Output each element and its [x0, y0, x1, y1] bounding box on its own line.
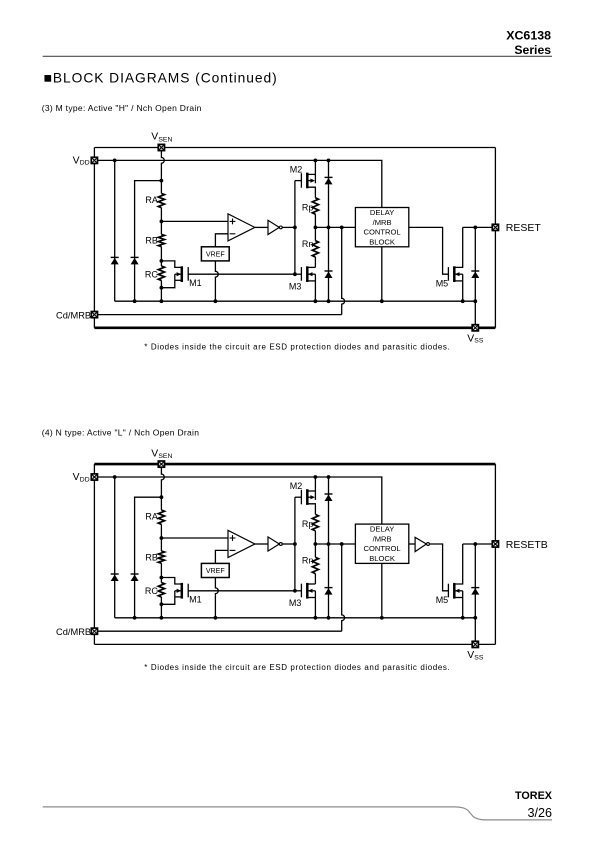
svg-text:CONTROL: CONTROL — [364, 228, 401, 237]
wire RB-RC segment — [160, 247, 162, 261]
block DELAY/MRB CONTROL BLOCK — [355, 208, 408, 247]
wire M3 gate lead — [295, 590, 302, 592]
junction gate line - gate column — [293, 272, 297, 276]
svg-text:RB: RB — [145, 236, 158, 246]
wire output line to terminal — [463, 226, 496, 228]
wire VSEN branch to diode column 2 — [135, 497, 162, 618]
wire gate line M1-M3 — [188, 273, 295, 275]
transistor M3 drain arm — [307, 583, 315, 585]
terminal VSS — [472, 325, 478, 331]
transistor M2 source arm — [307, 173, 315, 175]
footer rule — [43, 807, 552, 820]
junction VREF column - VSS rail — [214, 299, 218, 303]
svg-text:M3: M3 — [289, 282, 302, 292]
junction mid line - Cd/MRB column — [340, 226, 344, 230]
junction RC top — [160, 259, 164, 263]
transistor M3 bulk arm arrow — [308, 273, 315, 275]
junction gate column - inverter output — [293, 542, 297, 546]
junction VDD-M2 source column — [314, 159, 318, 163]
svg-text:RA: RA — [145, 512, 158, 522]
transistor M3 channel bar — [306, 583, 309, 599]
wire Rn to M3 drain — [314, 257, 316, 267]
wire VSEN branch to diode column 2 — [135, 181, 162, 302]
op-amp comparator U1 — [228, 530, 255, 557]
wire VSEN column (hops VDD rail) — [161, 464, 164, 510]
transistor M2 gate lead — [295, 496, 302, 498]
transistor M2 drain arm — [307, 187, 315, 198]
diode ESD D2 — [131, 574, 139, 581]
transistor M1 source path — [161, 274, 174, 288]
op-amp comparator U1 — [228, 214, 255, 241]
transistor M3 bulk arm arrow — [308, 590, 315, 592]
wire diode column 4 — [474, 544, 476, 618]
junction diode column 3 - VSS rail — [327, 616, 331, 620]
svg-text:XC6138: XC6138 — [506, 29, 551, 43]
svg-text:RC: RC — [145, 270, 158, 280]
comparator - symbol — [230, 549, 236, 551]
junction gate column - inverter output — [293, 226, 297, 230]
wire comparator output — [255, 226, 268, 228]
diode ESD D5 — [471, 588, 479, 595]
svg-text:SS: SS — [474, 338, 484, 345]
junction mid line - diode column 3 — [327, 226, 331, 230]
svg-text:3/26: 3/26 — [527, 806, 552, 820]
junction diode column 3 - VSS rail — [327, 299, 331, 303]
svg-text:Rp: Rp — [302, 519, 314, 529]
wire outer box right edge — [494, 148, 496, 328]
svg-text:V: V — [73, 156, 80, 167]
transistor M5 gate bar — [447, 584, 449, 598]
wire Rp to mid node — [314, 214, 316, 227]
transistor M3 drain arm — [307, 266, 315, 268]
svg-text:M5: M5 — [436, 595, 449, 605]
junction RC bottom — [160, 602, 164, 606]
wire outer box left edge — [93, 148, 95, 328]
block DELAY/MRB CONTROL BLOCK — [355, 524, 408, 563]
transistor M1 source path — [161, 591, 174, 605]
junction M5 source - VSS rail — [461, 616, 465, 620]
wire M2/M3 gate column — [294, 497, 296, 591]
junction output line - diode column 4 — [473, 542, 477, 546]
block VREF box — [201, 563, 229, 577]
transistor M1 bulk arm — [175, 273, 181, 275]
wire M3 gate lead — [295, 273, 302, 275]
wire comparator + input — [161, 220, 228, 222]
transistor M5 source arm — [454, 597, 462, 599]
junction delay block - VSS rail — [380, 299, 384, 303]
diode ESD D4 — [325, 271, 333, 278]
svg-text:VREF: VREF — [206, 567, 226, 575]
block VREF box — [201, 247, 229, 261]
transistor M5 bulk arm arrow — [455, 590, 462, 592]
wire outer box left edge — [93, 464, 95, 644]
wire outer box bottom edge — [94, 326, 495, 329]
wire ESD diode column 3 — [328, 477, 330, 618]
junction Rp/Rn mid node — [314, 542, 318, 546]
transistor M1 drain path — [161, 578, 181, 585]
svg-text:BLOCK: BLOCK — [369, 237, 395, 246]
junction RC top — [160, 576, 164, 580]
inverter U2 — [268, 537, 279, 551]
resistor Rp — [312, 198, 318, 214]
junction VDD-ESD diode column 1 — [113, 159, 117, 163]
transistor M5 bulk arm arrow — [455, 273, 462, 275]
junction VREF column - VSS rail — [214, 616, 218, 620]
transistor M2 channel bar — [306, 489, 309, 505]
transistor M2 gate lead — [295, 180, 302, 182]
transistor M2 gate bar — [300, 173, 302, 188]
wire VDD rail — [94, 477, 381, 524]
svg-text:V: V — [467, 333, 474, 344]
svg-text:TOREX: TOREX — [515, 790, 553, 802]
wire comparator output — [255, 543, 268, 545]
resistor RB — [158, 551, 164, 563]
wire comparator + input — [161, 537, 228, 539]
wire RB-RC segment — [160, 563, 162, 577]
svg-text:M2: M2 — [290, 164, 303, 174]
wire inverter output to gate column — [282, 226, 295, 228]
comparator + symbol — [230, 537, 236, 539]
transistor M1 drain path — [161, 261, 181, 268]
wire mid node to delay block — [315, 543, 355, 545]
svg-text:Cd/MRB: Cd/MRB — [56, 310, 91, 320]
wire RC bottom to VSS rail — [160, 604, 162, 618]
junction VSEN-branch node — [160, 495, 164, 499]
wire delay block output to M5 gate — [409, 227, 449, 274]
svg-text:VREF: VREF — [206, 251, 226, 259]
transistor M1 channel bar — [181, 266, 184, 282]
wire VSS rail — [115, 300, 476, 302]
wire delay block bottom to VSS rail — [381, 247, 383, 301]
svg-text:M2: M2 — [290, 481, 303, 491]
svg-text:RB: RB — [145, 552, 158, 562]
header rule — [43, 55, 552, 57]
resistor RC — [160, 578, 162, 583]
svg-text:RA: RA — [145, 195, 158, 205]
wire VDD rail — [94, 160, 381, 207]
comparator - symbol — [230, 233, 236, 235]
transistor M2 drain arm — [307, 504, 315, 515]
junction gate line - gate column — [293, 589, 297, 593]
junction diode column 2 - VSS rail — [133, 299, 137, 303]
wire delay block bottom to VSS rail — [381, 563, 383, 617]
svg-text:/MRB: /MRB — [373, 534, 392, 543]
junction VDD-M2 source column — [314, 475, 318, 479]
junction diode column 4 - VSS rail — [473, 616, 477, 620]
inverter U3 — [415, 537, 426, 551]
transistor M3 source arm — [307, 597, 315, 599]
terminal RESETB — [492, 541, 498, 547]
comparator + symbol — [230, 220, 236, 222]
svg-text:M1: M1 — [189, 594, 202, 604]
svg-text:Series: Series — [514, 43, 551, 57]
resistor RC — [160, 261, 162, 266]
transistor M2 channel bar — [306, 173, 309, 189]
svg-text:Rn: Rn — [302, 556, 314, 566]
junction comparator + tap — [160, 536, 164, 540]
svg-text:RESETB: RESETB — [506, 539, 548, 551]
transistor M5 channel bar — [453, 266, 456, 282]
svg-text:* Diodes inside the circuit ar: * Diodes inside the circuit are ESD prot… — [144, 663, 450, 672]
wire Cd/MRB line — [94, 630, 341, 632]
junction RC bottom — [160, 286, 164, 290]
terminal RESET — [492, 224, 498, 230]
terminal VSS — [472, 641, 478, 647]
diode ESD D2 — [131, 257, 139, 264]
svg-text:SEN: SEN — [158, 137, 172, 144]
junction VSEN-branch node — [160, 179, 164, 183]
svg-text:■BLOCK DIAGRAMS (Continued): ■BLOCK DIAGRAMS (Continued) — [44, 71, 278, 86]
diode ESD D3 — [325, 177, 333, 184]
wire gate line M1-M3 — [188, 590, 295, 592]
junction delay block - VSS rail — [380, 616, 384, 620]
terminal Cd/MRB — [91, 312, 97, 318]
wire inverter output to gate column — [282, 543, 295, 545]
wire ESD diode column 1 — [114, 160, 116, 301]
wire outer box top edge — [94, 463, 495, 466]
resistor Rn — [312, 241, 318, 257]
wire mid node to delay block — [315, 226, 355, 228]
svg-text:M5: M5 — [436, 279, 449, 289]
transistor M2 bulk arm arrow — [307, 180, 311, 182]
svg-text:* Diodes inside the circuit ar: * Diodes inside the circuit are ESD prot… — [144, 343, 450, 352]
wire RA-RB segment — [160, 208, 162, 235]
svg-text:RC: RC — [145, 586, 158, 596]
transistor M5 source arm — [454, 280, 462, 282]
svg-text:V: V — [467, 650, 474, 661]
wire inverter U3 output to M5 gate — [429, 544, 448, 591]
junction diode column 2 - VSS rail — [133, 616, 137, 620]
svg-text:M3: M3 — [289, 598, 302, 608]
diode ESD D5 — [471, 271, 479, 278]
diode ESD D1 — [111, 257, 119, 264]
wire VSS rail — [115, 617, 476, 619]
wire VSEN column (hops VDD rail) — [161, 148, 164, 194]
transistor M3 channel bar — [306, 266, 309, 282]
svg-text:CONTROL: CONTROL — [364, 544, 401, 553]
wire RC bottom to VSS rail — [160, 288, 162, 302]
wire M2/M3 gate column — [294, 181, 296, 275]
svg-text:SEN: SEN — [158, 453, 172, 460]
resistor RA — [158, 510, 164, 524]
junction VDD-ESD diode column 1 — [113, 475, 117, 479]
wire comparator - input from VREF — [215, 234, 228, 247]
junction output line - diode column 4 — [473, 226, 477, 230]
resistor RA — [158, 193, 164, 207]
transistor M1 gate bar — [187, 584, 189, 598]
svg-text:V: V — [151, 132, 158, 143]
transistor M2 source arm — [307, 490, 315, 492]
diode ESD D4 — [325, 588, 333, 595]
junction M5 source - VSS rail — [461, 299, 465, 303]
resistor Rn — [312, 557, 318, 573]
svg-text:Rp: Rp — [302, 202, 314, 212]
wire Rp to mid node — [314, 531, 316, 544]
junction mid line - diode column 3 — [327, 542, 331, 546]
terminal VSEN — [158, 144, 164, 150]
wire mid node to Rn — [314, 227, 316, 240]
svg-text:(4) N type: Active "L" / Nch O: (4) N type: Active "L" / Nch Open Drain — [42, 427, 200, 437]
junction resistor chain - VSS rail — [160, 299, 164, 303]
junction mid line - Cd/MRB column — [340, 542, 344, 546]
wire outer box top edge — [94, 147, 495, 149]
svg-text:RESET: RESET — [506, 222, 542, 234]
wire VREF to VSS rail (hops gate line) — [215, 578, 218, 618]
junction Rp/Rn mid node — [314, 226, 318, 230]
wire VREF to VSS rail (hops gate line) — [215, 261, 218, 301]
svg-text:DELAY: DELAY — [370, 525, 394, 534]
wire Cd/MRB column (hops VSS rail) — [342, 227, 345, 314]
transistor M5 drain arm — [454, 544, 462, 584]
wire outer box bottom edge — [94, 643, 495, 645]
terminal VDD — [91, 157, 97, 163]
wire diode column 4 — [474, 227, 476, 301]
wire mid node to Rn — [314, 544, 316, 557]
resistor Rp — [312, 514, 318, 530]
svg-text:Cd/MRB: Cd/MRB — [56, 627, 91, 637]
terminal Cd/MRB — [91, 628, 97, 634]
transistor M1 bulk arm — [175, 590, 181, 592]
svg-text:SS: SS — [474, 654, 484, 661]
junction VDD-ESD diode column 3 — [327, 475, 331, 479]
svg-text:M1: M1 — [189, 278, 202, 288]
junction M3 source - VSS rail — [314, 299, 318, 303]
svg-text:Rn: Rn — [302, 239, 314, 249]
wire Cd/MRB column (hops VSS rail) — [342, 544, 345, 631]
wire ESD diode column 1 — [114, 477, 116, 618]
wire output line to terminal — [463, 543, 496, 545]
svg-text:V: V — [151, 448, 158, 459]
wire comparator - input from VREF — [215, 550, 228, 563]
wire ESD diode column 3 — [328, 160, 330, 301]
wire Cd/MRB line — [94, 314, 341, 316]
transistor M3 gate bar — [300, 267, 302, 281]
resistor RB — [158, 234, 164, 246]
diode ESD D1 — [111, 574, 119, 581]
transistor M1 channel bar — [181, 583, 184, 599]
junction diode column 4 - VSS rail — [473, 299, 477, 303]
junction comparator + tap — [160, 220, 164, 224]
transistor M3 source arm — [307, 280, 315, 282]
transistor M5 gate bar — [447, 267, 449, 281]
junction resistor chain - VSS rail — [160, 616, 164, 620]
svg-text:BLOCK: BLOCK — [369, 554, 395, 563]
wire delay block output — [409, 543, 415, 545]
wire VSS rail to VSS terminal — [474, 618, 476, 645]
svg-text:/MRB: /MRB — [373, 218, 392, 227]
junction M3 source - VSS rail — [314, 616, 318, 620]
transistor M1 gate bar — [187, 267, 189, 281]
inverter U2 — [268, 220, 279, 234]
diode ESD D3 — [325, 494, 333, 501]
wire Rn to M3 drain — [314, 574, 316, 584]
svg-text:DELAY: DELAY — [370, 208, 394, 217]
wire outer box right edge — [494, 464, 496, 644]
svg-text:DD: DD — [80, 160, 90, 167]
svg-text:V: V — [73, 472, 80, 483]
junction VDD-ESD diode column 3 — [327, 159, 331, 163]
terminal VDD — [91, 474, 97, 480]
transistor M5 drain arm — [454, 227, 462, 267]
svg-text:(3) M type: Active "H" / Nch O: (3) M type: Active "H" / Nch Open Drain — [42, 103, 202, 113]
wire RA-RB segment — [160, 524, 162, 551]
terminal VSEN — [158, 461, 164, 467]
transistor M2 gate bar — [300, 490, 302, 505]
transistor M2 bulk arm arrow — [307, 496, 311, 498]
transistor M5 channel bar — [453, 583, 456, 599]
wire VSS rail to VSS terminal — [474, 301, 476, 328]
transistor M3 gate bar — [300, 584, 302, 598]
svg-text:DD: DD — [80, 476, 90, 483]
